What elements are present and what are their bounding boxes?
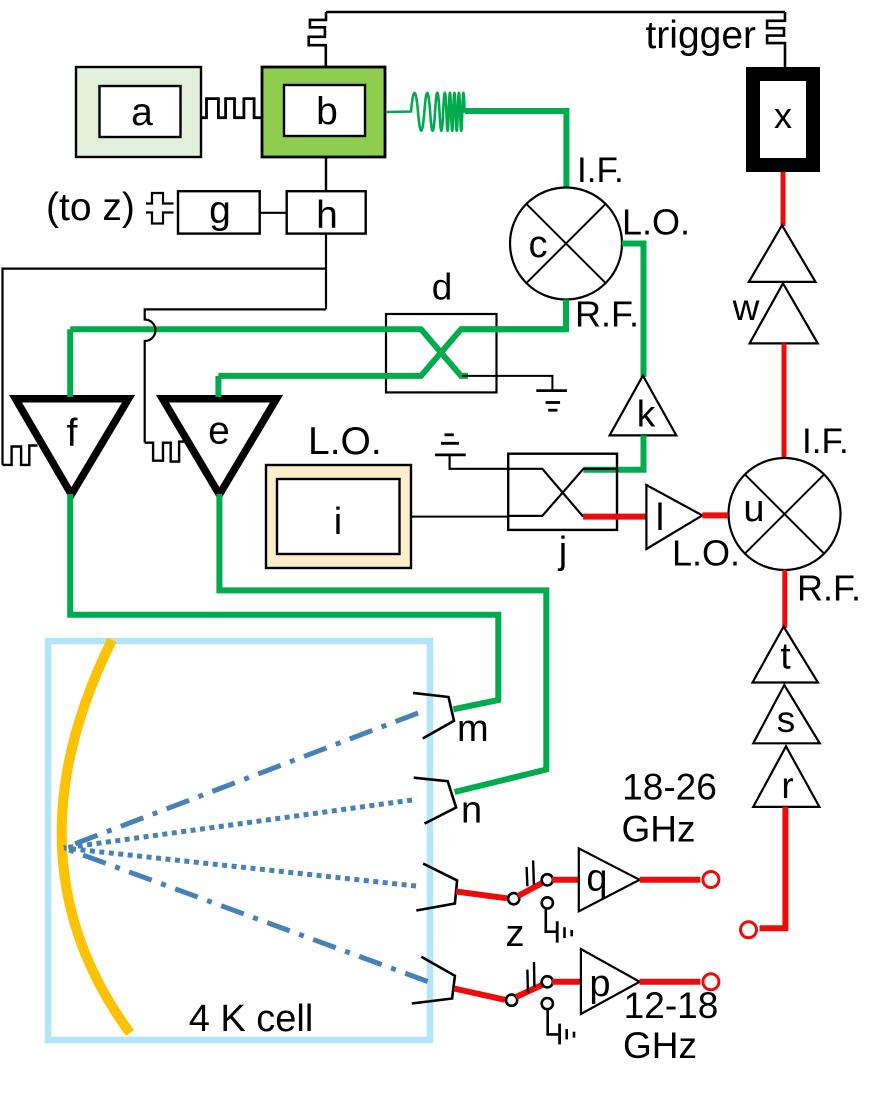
box i (local oscillator) xyxy=(266,465,411,568)
op-amp r xyxy=(753,746,819,807)
square-wave into e xyxy=(145,442,187,462)
red wire throw to q xyxy=(552,877,579,883)
pole circle xyxy=(506,995,517,1006)
throw circle (to q) xyxy=(542,874,553,885)
lower throw circle xyxy=(542,897,553,908)
svg-text:L.O.: L.O. xyxy=(672,533,740,574)
horn to p switch xyxy=(412,957,455,1004)
beam to horn of q (dotted) xyxy=(64,848,416,886)
4 K cell box xyxy=(48,641,430,1040)
op-amp w (two cascaded amplifiers) xyxy=(749,225,816,282)
wire l to u (red) xyxy=(702,512,728,518)
red wire throw to p xyxy=(552,979,581,985)
wire h down with branches to f and e xyxy=(325,234,327,310)
wire x to w (red) xyxy=(781,172,786,226)
square-wave link a-b xyxy=(201,99,262,118)
svg-text:q: q xyxy=(586,858,607,900)
svg-text:z: z xyxy=(506,913,525,955)
coupler j xyxy=(508,454,617,530)
op-amp p xyxy=(581,949,640,1014)
red throw link xyxy=(518,883,543,897)
beam to n (dotted) xyxy=(64,800,412,848)
ground at d xyxy=(536,389,567,392)
svg-text:x: x xyxy=(774,95,792,136)
green f input drop xyxy=(67,329,73,397)
green wire f to horn m xyxy=(70,494,498,709)
op-amp e (thick) xyxy=(163,399,277,495)
switch z (lower): red wire horn to pole xyxy=(454,989,505,1000)
wire g to h xyxy=(260,212,287,214)
coupler d xyxy=(386,314,497,392)
green cross in d: line from f-bus to lower-right xyxy=(70,329,468,376)
svg-text:n: n xyxy=(461,790,482,832)
svg-text:j: j xyxy=(558,530,567,572)
wire w to u I.F. (red) xyxy=(782,343,787,458)
svg-text:I.F.: I.F. xyxy=(577,151,624,190)
svg-text:L.O.: L.O. xyxy=(308,420,382,463)
red throw link xyxy=(516,985,543,998)
wire c L.O. to k (green) xyxy=(622,244,644,378)
wire k to j (green) xyxy=(583,435,643,469)
op-amp l xyxy=(646,485,702,549)
svg-text:18-26: 18-26 xyxy=(622,767,717,808)
svg-text:h: h xyxy=(316,194,338,237)
wire c R.F. to d (green) xyxy=(461,300,566,330)
svg-text:f: f xyxy=(67,412,78,455)
terminator on lower throw xyxy=(548,1010,560,1035)
svg-text:4 K cell: 4 K cell xyxy=(189,998,314,1040)
beam to m (dash-dot) xyxy=(64,713,418,848)
svg-text:GHz: GHz xyxy=(622,809,696,850)
svg-text:12-18: 12-18 xyxy=(624,985,719,1026)
box h xyxy=(287,191,366,233)
horn n xyxy=(414,778,456,824)
op-amp s xyxy=(753,685,820,743)
horn m xyxy=(413,693,454,739)
op-amp t xyxy=(753,627,819,683)
wire branch to e with hop over green xyxy=(145,309,326,442)
connector node q output xyxy=(703,872,719,888)
svg-text:I.F.: I.F. xyxy=(802,422,849,461)
mixer c xyxy=(510,188,622,300)
connector node p output xyxy=(703,974,719,990)
actuator marks xyxy=(526,970,529,993)
svg-text:w: w xyxy=(732,287,760,328)
connector node (open circle, r output) xyxy=(741,922,757,938)
wire trigger bus (top horizontal) xyxy=(326,11,785,13)
wire q to connector (red) xyxy=(640,877,701,883)
connector symbol to g xyxy=(146,193,174,204)
svg-text:m: m xyxy=(457,708,489,750)
svg-text:e: e xyxy=(208,410,230,453)
box x (detector) xyxy=(753,74,813,165)
svg-text:g: g xyxy=(209,189,231,232)
op-amp k xyxy=(610,376,677,436)
svg-text:L.O.: L.O. xyxy=(622,202,690,243)
svg-text:GHz: GHz xyxy=(623,1025,697,1066)
svg-text:R.F.: R.F. xyxy=(797,568,861,609)
svg-text:b: b xyxy=(316,91,338,134)
svg-text:(to z): (to z) xyxy=(46,186,135,229)
svg-text:t: t xyxy=(780,636,791,677)
svg-text:l: l xyxy=(656,497,664,539)
wire i to j xyxy=(411,516,509,518)
mirror arc xyxy=(62,640,130,1033)
wire u to t (red) xyxy=(782,570,787,628)
svg-text:i: i xyxy=(334,501,342,543)
mixer u xyxy=(729,458,841,570)
green cross in d: line from e-bus to upper-right xyxy=(218,329,566,376)
terminator on lower throw xyxy=(546,909,557,932)
wire b bottom to h xyxy=(325,157,327,191)
pole circle xyxy=(508,893,519,904)
svg-text:c: c xyxy=(529,224,548,266)
wire j to l (red) xyxy=(583,514,646,520)
op-amp f (thick) xyxy=(16,399,129,495)
square-wave into f xyxy=(3,446,38,465)
green e input drop xyxy=(215,376,221,397)
square-wave symbol above x xyxy=(767,12,785,67)
switch z (upper): red wire horn to pole xyxy=(456,892,507,899)
horn to q switch xyxy=(416,864,457,911)
wire chirp to c I.F. (green) xyxy=(465,111,566,188)
svg-text:a: a xyxy=(131,91,153,134)
wire d to ground xyxy=(462,376,552,390)
square-wave symbol above b xyxy=(309,12,326,67)
svg-text:R.F.: R.F. xyxy=(575,294,639,335)
box b xyxy=(262,67,385,157)
wire p to connector (red) xyxy=(640,979,701,985)
beam to horn of p (dash-dot) xyxy=(64,848,428,982)
box a xyxy=(76,67,201,157)
svg-text:p: p xyxy=(589,963,610,1005)
svg-text:trigger: trigger xyxy=(645,14,756,57)
svg-text:u: u xyxy=(743,488,764,530)
actuator marks xyxy=(525,867,528,886)
svg-text:r: r xyxy=(781,765,793,806)
svg-text:k: k xyxy=(637,394,656,435)
op-amp q xyxy=(579,848,640,911)
svg-text:s: s xyxy=(777,699,796,740)
lower throw circle xyxy=(542,998,553,1009)
green chirp b to mixer c xyxy=(386,93,467,131)
throw circle (to p) xyxy=(542,976,553,987)
wire r to connector (red) xyxy=(760,807,786,928)
svg-text:d: d xyxy=(432,267,453,308)
green wire e to horn n xyxy=(219,494,546,792)
ground at j xyxy=(450,455,509,469)
box g xyxy=(178,191,260,233)
wire branch to f (left long) xyxy=(3,269,327,465)
